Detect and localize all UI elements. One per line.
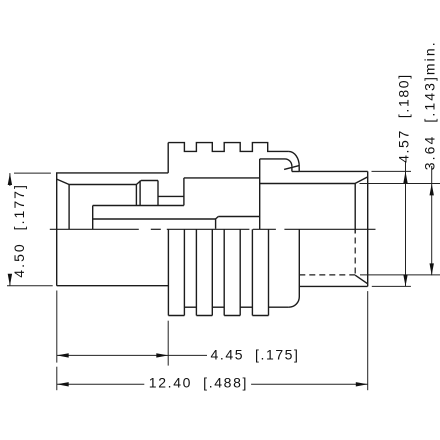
dim 4.45 extension x57 lower	[56, 367, 58, 391]
centerline chain segment 3	[284, 228, 375, 230]
rib vertical 4	[211, 229, 213, 315]
dim 4.50 line top segment	[9, 173, 11, 186]
barrel top edge	[299, 170, 367, 172]
dim 3.64 bottom extension	[360, 274, 440, 276]
tab cut diagonal	[284, 166, 299, 170]
inner sleeve left vertical	[68, 185, 70, 230]
bore line y219	[93, 218, 216, 220]
barrel top chamfer	[355, 177, 368, 184]
arrow 12.40 right	[356, 382, 368, 386]
rib bottom 4	[252, 315, 268, 317]
centerline chain segment 2	[167, 228, 250, 230]
arrow 4.57 down	[403, 275, 407, 287]
tab inner vertical	[291, 166, 293, 171]
bore left vertical x93	[92, 206, 94, 230]
dim 4.57 top extension	[372, 170, 412, 172]
block right vertical	[157, 181, 159, 206]
rib vertical 8	[268, 229, 270, 315]
barrel face line y183	[260, 183, 356, 185]
body chamfer top-left	[57, 179, 69, 184]
barrel bottom edge	[299, 285, 367, 287]
dim 12.40 dimension line right	[251, 383, 368, 385]
bore line y216	[218, 216, 259, 218]
step edge y196	[158, 195, 184, 197]
svg-text:4.50 [.177]: 4.50 [.177]	[11, 183, 27, 278]
rib vertical 2	[183, 229, 185, 315]
shoulder edge y178	[184, 177, 260, 179]
block inner vertical	[139, 181, 141, 206]
inner sleeve top edge	[69, 184, 136, 186]
dim 3.64 top extension	[360, 183, 440, 185]
shell top edge y159	[260, 158, 285, 160]
centerline short dash 2	[253, 228, 276, 230]
hidden line y275 dashed	[299, 274, 355, 276]
tab outer vertical	[298, 166, 300, 171]
arrow 3.64 up	[430, 184, 434, 196]
dim 4.45 extension x57 upper	[56, 291, 58, 363]
rib bottom 1	[168, 315, 184, 317]
shell vertical x260	[259, 159, 261, 229]
tab outer bend arc	[289, 151, 300, 166]
dim 4.57 bottom extension	[372, 285, 411, 287]
arrow 12.40 left	[57, 382, 69, 386]
arrow 4.45 right	[156, 353, 168, 357]
dim 4.57 dimension line	[405, 161, 407, 286]
rib vertical 7	[251, 229, 253, 315]
recess bottom 2	[212, 306, 224, 308]
rib vertical 1	[167, 229, 169, 315]
svg-text:12.40 [.488]: 12.40 [.488]	[149, 375, 248, 391]
tab bottom edge	[292, 171, 299, 173]
arrow 4.50 down	[8, 274, 12, 286]
rib vertical 3	[195, 229, 197, 315]
hidden line vertical x355 dashed	[354, 238, 356, 276]
svg-text:4.57 [.180]: 4.57 [.180]	[395, 73, 411, 163]
svg-text:4.45 [.175]: 4.45 [.175]	[211, 346, 300, 362]
castellated plate left edge	[167, 143, 169, 173]
recess bottom 3	[240, 306, 252, 308]
bore step chamfer	[216, 217, 219, 220]
centerline short dash 1	[151, 228, 161, 230]
barrel bottom chamfer	[355, 275, 368, 284]
rib bottom 3	[224, 315, 240, 317]
arrow 4.57 up	[403, 171, 407, 183]
step vertical x184	[183, 178, 185, 206]
dim 4.50 line bottom segment	[9, 276, 11, 286]
centerline chain segment 1	[50, 228, 139, 230]
tab inner bend arc	[285, 159, 292, 166]
dim 4.45 extension x168	[167, 321, 169, 366]
block left vertical	[135, 185, 137, 206]
bore line y205	[93, 205, 184, 207]
rib vertical 6	[239, 229, 241, 315]
arrow 4.50 up	[8, 173, 12, 185]
rib bottom 2	[196, 315, 212, 317]
barrel face vertical solid part	[354, 183, 356, 233]
dim 3.64 dimension line	[431, 166, 433, 275]
barrel right edge	[367, 171, 369, 286]
flange bottom edge y307	[269, 306, 289, 308]
flange right edge with fillet	[289, 229, 299, 307]
body bottom edge	[57, 285, 169, 287]
dim 12.40 dimension line left	[57, 383, 145, 385]
bore step vertical	[215, 219, 217, 229]
dim 4.45 dimension line	[57, 354, 207, 356]
arrow 3.64 down	[430, 263, 434, 275]
arrow 4.45 left	[57, 353, 69, 357]
dim 4.50 bottom extension line	[7, 285, 53, 287]
castellated teeth profile	[168, 143, 288, 152]
dim 12.40 extension x368	[367, 291, 369, 390]
recess bottom 1	[184, 306, 196, 308]
block chamfer	[136, 181, 141, 185]
body outline left	[57, 173, 169, 286]
dim 4.50 top extension line	[14, 172, 51, 174]
rib vertical 5	[223, 229, 225, 315]
svg-text:3.64 [.143]min.: 3.64 [.143]min.	[421, 40, 437, 170]
block top edge	[141, 180, 158, 182]
